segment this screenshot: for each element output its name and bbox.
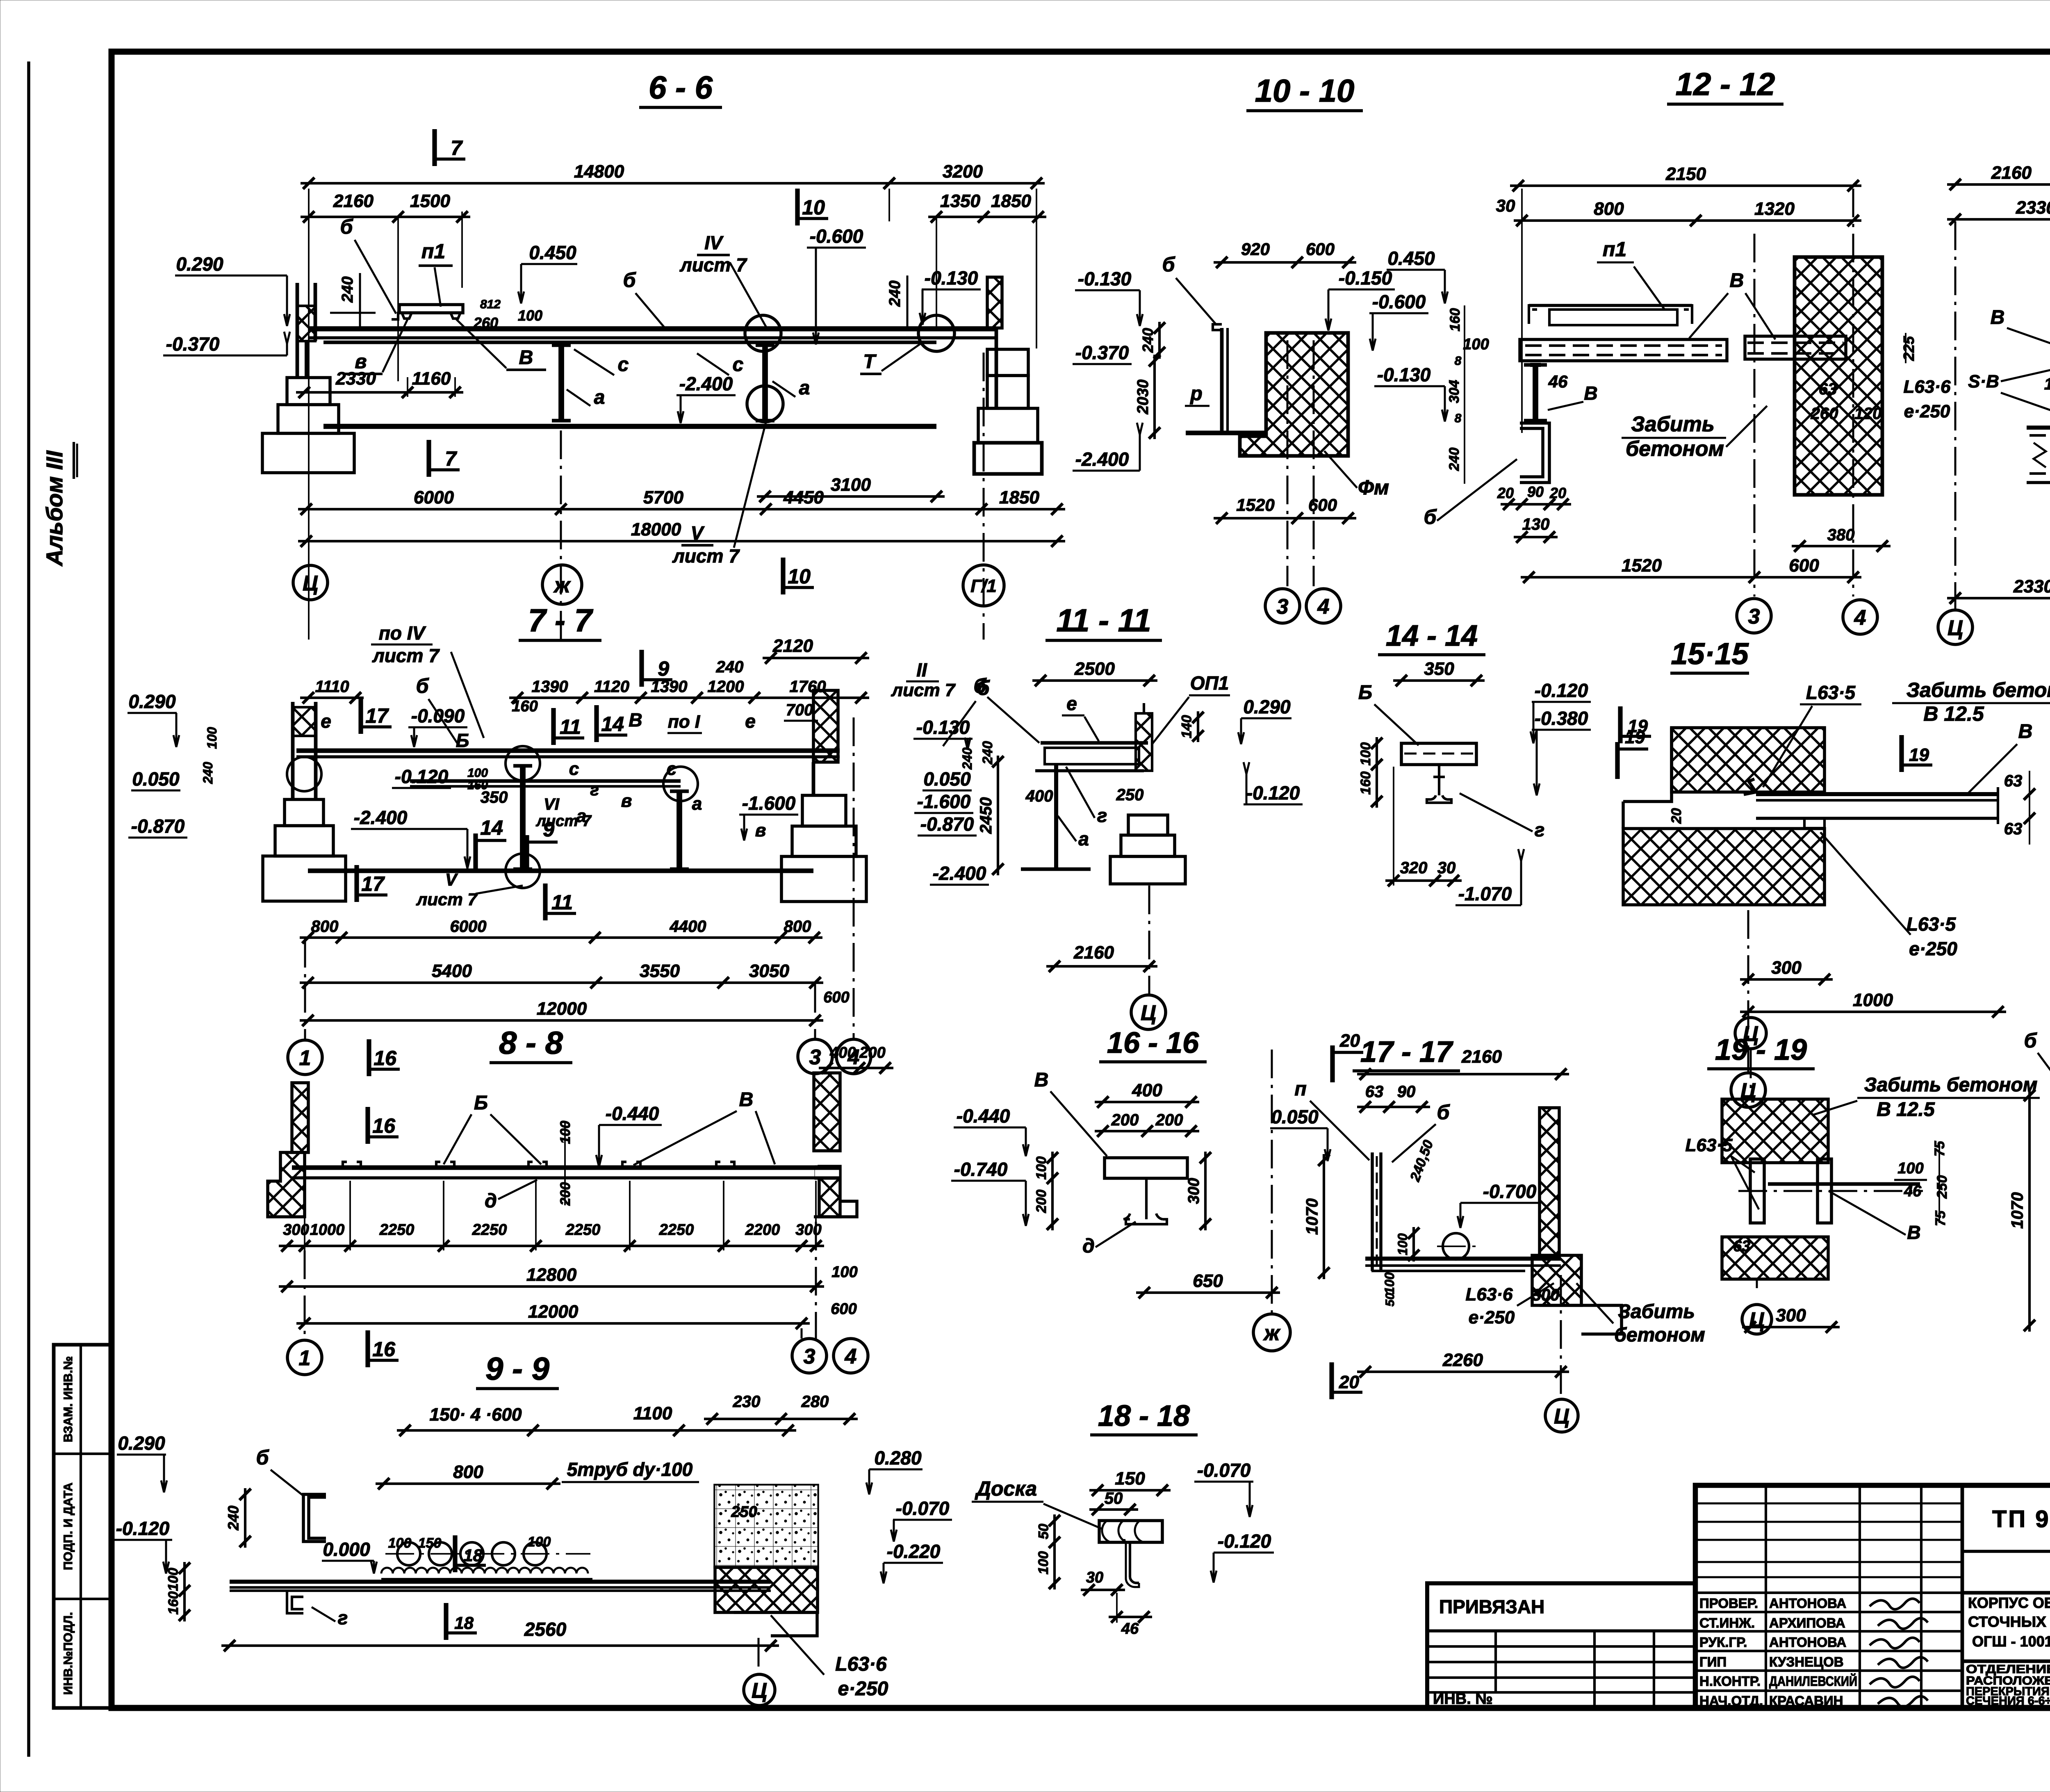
svg-text:СТ.ИНЖ.: СТ.ИНЖ. — [1699, 1615, 1755, 1630]
svg-text:11: 11 — [560, 715, 581, 738]
svg-text:7: 7 — [445, 447, 457, 470]
19-19 dim 300 — [1742, 1326, 1840, 1328]
7-7 flag 9 — [639, 650, 644, 687]
svg-text:-0.120: -0.120 — [395, 766, 449, 787]
svg-text:-0.220: -0.220 — [887, 1541, 941, 1562]
svg-text:L63·6: L63·6 — [835, 1653, 887, 1675]
6-6 column I-beams — [558, 345, 564, 421]
svg-text:1110: 1110 — [315, 678, 349, 696]
svg-text:-0.870: -0.870 — [131, 815, 185, 837]
svg-text:РУК.ГР.: РУК.ГР. — [1699, 1635, 1747, 1650]
svg-text:с: с — [569, 759, 579, 779]
svg-text:Б: Б — [456, 730, 469, 751]
svg-text:50: 50 — [1105, 1489, 1123, 1507]
svg-text:17: 17 — [365, 704, 389, 727]
8-8 dim row — [279, 1245, 824, 1247]
svg-text:L63·6: L63·6 — [1904, 377, 1951, 397]
svg-text:-0.120: -0.120 — [1535, 680, 1588, 701]
svg-text:В: В — [519, 347, 533, 369]
15-15 axis circle C — [1747, 910, 1749, 1072]
svg-text:400: 400 — [829, 1044, 856, 1061]
svg-text:11: 11 — [551, 891, 573, 914]
svg-text:46: 46 — [1548, 372, 1568, 391]
svg-text:812: 812 — [480, 298, 501, 311]
svg-text:20: 20 — [1339, 1372, 1359, 1392]
svg-text:Ц: Ц — [1554, 1405, 1569, 1428]
svg-text:0.290: 0.290 — [128, 691, 176, 712]
9-9 beam lines — [230, 1580, 771, 1584]
svg-text:б: б — [1437, 1101, 1451, 1124]
11-11 dim 140 vert — [1197, 711, 1199, 742]
svg-text:б: б — [2024, 1029, 2038, 1052]
17-17 dim 1070 vert — [1323, 1154, 1325, 1279]
9-9 pipe circles — [385, 1553, 590, 1555]
10-10 axis circle 3 — [1265, 589, 1300, 623]
18-18 dim 50 — [1089, 1508, 1138, 1511]
svg-text:-0.370: -0.370 — [166, 333, 220, 355]
svg-text:-2.400: -2.400 — [933, 863, 986, 884]
svg-text:3: 3 — [1748, 605, 1760, 628]
svg-text:3050: 3050 — [749, 961, 789, 981]
svg-text:650: 650 — [1193, 1271, 1223, 1291]
svg-text:4450: 4450 — [783, 487, 824, 508]
svg-text:63: 63 — [1365, 1083, 1384, 1101]
10-10 dim 920 600 — [1214, 261, 1356, 264]
svg-text:600: 600 — [823, 989, 849, 1006]
svg-text:10: 10 — [2044, 375, 2050, 393]
svg-text:100: 100 — [205, 727, 219, 749]
svg-text:В: В — [1730, 270, 1744, 291]
12-12 right beam segment — [1745, 336, 1846, 359]
15-15 beam — [1756, 792, 1998, 796]
svg-text:-0.370: -0.370 — [1075, 342, 1129, 363]
12-12 channel below — [1520, 423, 1549, 483]
15-15 flag 19 mid — [1899, 735, 1904, 772]
svg-text:15·15: 15·15 — [1671, 637, 1749, 671]
svg-text:300: 300 — [1185, 1178, 1203, 1204]
svg-text:1520: 1520 — [1622, 556, 1662, 576]
14-14 dim 350 — [1393, 679, 1485, 682]
svg-text:п: п — [1294, 1078, 1306, 1100]
svg-text:1070: 1070 — [1303, 1198, 1321, 1235]
svg-text:12000: 12000 — [528, 1302, 579, 1322]
16-16 dim 400 — [1095, 1101, 1199, 1103]
svg-text:-1.600: -1.600 — [917, 791, 971, 812]
17-17 base beam — [1365, 1257, 1561, 1261]
18-18 dim 30 — [1081, 1589, 1125, 1591]
svg-text:75: 75 — [1933, 1210, 1948, 1226]
8-8 dim 12800 — [279, 1285, 824, 1288]
9-9 right concrete block — [715, 1485, 818, 1567]
svg-text:19: 19 — [1625, 727, 1645, 747]
6-6 left wall — [296, 283, 299, 378]
svg-text:Б: Б — [1358, 682, 1372, 704]
14-14 rail below — [1427, 765, 1451, 803]
9-9 dim 150x4=600 1100 — [397, 1429, 796, 1432]
11-11 plate and beam — [1041, 741, 1148, 745]
svg-text:СЕЧЕНИЯ 6-6÷21-21. УЗЕЛ I: СЕЧЕНИЯ 6-6÷21-21. УЗЕЛ I — [1966, 1694, 2050, 1708]
svg-text:1390: 1390 — [532, 678, 568, 696]
svg-text:е: е — [321, 710, 331, 732]
svg-text:2160: 2160 — [1073, 943, 1114, 963]
7-7 flag 17 bottom — [354, 865, 359, 902]
svg-text:Забить бетоном: Забить бетоном — [1906, 679, 2050, 701]
svg-text:2030: 2030 — [1134, 380, 1152, 415]
svg-text:300: 300 — [795, 1221, 821, 1239]
17-17 flag 20 top — [1330, 1045, 1335, 1082]
7-7 flag 17 top — [358, 697, 363, 734]
svg-text:320: 320 — [1400, 859, 1428, 877]
svg-text:б: б — [256, 1446, 270, 1469]
14-14 flag 19 — [1618, 706, 1622, 743]
svg-text:920: 920 — [1241, 239, 1270, 259]
svg-text:Т: Т — [863, 351, 877, 373]
svg-text:L63·5: L63·5 — [1686, 1135, 1733, 1155]
7-7 axes and circles — [304, 939, 306, 1039]
svg-text:Забить бетоном: Забить бетоном — [1864, 1074, 2038, 1096]
svg-text:Альбом III: Альбом III — [41, 450, 67, 567]
10-10 dim 2030 vert — [1153, 355, 1156, 439]
svg-text:0.290: 0.290 — [118, 1432, 165, 1454]
signatures squiggles — [1870, 1598, 1920, 1609]
svg-text:п1: п1 — [421, 240, 445, 263]
svg-text:90: 90 — [1527, 483, 1544, 500]
title table thin rows — [1695, 1503, 1962, 1505]
svg-text:по IV: по IV — [379, 622, 426, 644]
11-11 base line — [1021, 868, 1091, 871]
12-12 dims 30 800 1320 — [1514, 219, 1861, 222]
svg-text:18: 18 — [454, 1613, 474, 1633]
6-6 main beam — [309, 326, 996, 332]
6-6 cut flag 10 bottom — [781, 558, 785, 594]
svg-text:1350: 1350 — [940, 191, 980, 211]
15-15 dim 1000 — [1740, 1011, 2006, 1013]
10-10 base line — [1186, 430, 1264, 435]
svg-text:600: 600 — [831, 1300, 856, 1318]
18-18 vert dims 50 100 — [1053, 1514, 1056, 1589]
svg-text:800: 800 — [453, 1462, 483, 1482]
7-7 axis circle 4 — [836, 1039, 871, 1074]
svg-text:лист 7: лист 7 — [372, 645, 440, 666]
6-6 dim 2330 1160 — [296, 391, 463, 394]
svg-text:1100: 1100 — [633, 1403, 672, 1423]
svg-text:-2.400: -2.400 — [1075, 449, 1129, 470]
19-19 beam line — [1768, 1182, 1920, 1186]
svg-text:-0.600: -0.600 — [1372, 291, 1426, 312]
svg-text:Ц: Ц — [1743, 1022, 1758, 1046]
18-18 channel below — [1124, 1539, 1139, 1583]
svg-text:2160: 2160 — [1461, 1047, 1502, 1067]
svg-text:100: 100 — [1036, 1551, 1051, 1575]
svg-text:18000: 18000 — [631, 519, 681, 540]
svg-text:14800: 14800 — [574, 162, 624, 182]
svg-text:240: 240 — [886, 280, 904, 307]
svg-text:АРХИПОВА: АРХИПОВА — [1769, 1615, 1845, 1630]
svg-text:Фм: Фм — [1358, 476, 1389, 499]
14-14 dims 320 30 — [1385, 879, 1462, 882]
svg-text:1070: 1070 — [2009, 1192, 2027, 1229]
privyazan table — [1427, 1583, 1695, 1708]
svg-text:8 - 8: 8 - 8 — [499, 1025, 563, 1061]
svg-text:6 - 6: 6 - 6 — [649, 69, 713, 105]
6-6 right foundation — [987, 349, 1028, 376]
svg-text:СТОЧНЫХ ВОД С 5ЦЕНТРИФУГАМИ: СТОЧНЫХ ВОД С 5ЦЕНТРИФУГАМИ — [1968, 1613, 2050, 1630]
8-8 dims 400 200 top — [819, 1067, 893, 1069]
9-9 dims 230 280 — [704, 1418, 858, 1420]
svg-text:-1.600: -1.600 — [742, 792, 796, 814]
svg-text:п1: п1 — [1603, 238, 1626, 261]
svg-text:90: 90 — [1397, 1083, 1416, 1101]
svg-text:230: 230 — [733, 1393, 761, 1411]
svg-text:ГИП: ГИП — [1699, 1654, 1727, 1669]
9-9 dims 160 100 vert — [183, 1562, 186, 1621]
svg-text:10: 10 — [802, 196, 825, 219]
svg-text:300: 300 — [1771, 958, 1802, 978]
svg-text:НАЧ.ОТД.: НАЧ.ОТД. — [1699, 1693, 1763, 1708]
svg-text:1000: 1000 — [310, 1221, 345, 1239]
16-16 vert dims 100 200 300 — [1051, 1152, 1054, 1230]
7-7 axis circle 1 — [288, 1040, 322, 1075]
8-8 beam — [292, 1165, 827, 1170]
12-12 dim 2150 — [1510, 184, 1861, 187]
svg-text:Забить: Забить — [1631, 412, 1714, 436]
svg-text:2500: 2500 — [1074, 659, 1115, 679]
8-8 flag 16 top — [365, 1107, 370, 1144]
svg-text:б: б — [340, 215, 354, 238]
svg-text:240: 240 — [225, 1505, 242, 1530]
14-14 vert dims 100 160 — [1376, 737, 1378, 808]
svg-text:50: 50 — [1036, 1524, 1052, 1539]
svg-text:ПРИВЯЗАН: ПРИВЯЗАН — [1439, 1596, 1544, 1617]
svg-text:-1.070: -1.070 — [1458, 883, 1512, 904]
7-7 bottom dims 800 6000 4400 800 — [300, 936, 822, 939]
7-7 axis circle 3 — [798, 1039, 832, 1074]
svg-text:46: 46 — [1121, 1620, 1139, 1637]
7-7 flag 16 bottom — [367, 1039, 371, 1076]
6-6 plate p1 on beam — [399, 305, 463, 313]
svg-text:В: В — [629, 709, 642, 731]
svg-text:12800: 12800 — [526, 1265, 577, 1285]
svg-text:-0.700: -0.700 — [1483, 1181, 1537, 1202]
svg-text:350: 350 — [1424, 659, 1454, 679]
svg-text:800: 800 — [784, 918, 811, 936]
17-17 dim 100 vert — [1412, 1227, 1415, 1261]
svg-text:б: б — [623, 269, 637, 291]
svg-text:ж: ж — [1263, 1321, 1281, 1345]
svg-text:0.290: 0.290 — [176, 253, 223, 275]
svg-text:0.000: 0.000 — [323, 1539, 370, 1560]
svg-text:300: 300 — [283, 1221, 309, 1239]
svg-text:-0.870: -0.870 — [920, 813, 974, 835]
14-14 beam plate — [1401, 743, 1476, 765]
svg-text:9: 9 — [543, 818, 554, 841]
svg-text:16 - 16: 16 - 16 — [1107, 1027, 1199, 1059]
6-6 axis circle Zh — [542, 565, 582, 604]
svg-text:ОГШ - 1001К- 01: ОГШ - 1001К- 01 — [1972, 1633, 2050, 1650]
svg-text:Ц: Ц — [752, 1679, 767, 1703]
svg-text:-0.130: -0.130 — [925, 267, 978, 289]
svg-text:2450: 2450 — [977, 797, 995, 834]
svg-text:11 - 11: 11 - 11 — [1056, 602, 1151, 638]
svg-text:10: 10 — [788, 565, 811, 588]
9-9 weld strip — [381, 1568, 588, 1573]
svg-text:В: В — [2018, 721, 2033, 742]
svg-text:-2.400: -2.400 — [679, 373, 733, 394]
19-19 axis circle C bottom — [1756, 1279, 1758, 1288]
svg-text:260: 260 — [1811, 405, 1838, 423]
svg-text:S·В: S·В — [1968, 371, 1999, 392]
svg-text:2330: 2330 — [2016, 198, 2050, 218]
svg-text:e·250: e·250 — [838, 1678, 888, 1700]
svg-text:2160: 2160 — [1991, 163, 2032, 183]
svg-text:240: 240 — [339, 276, 356, 303]
svg-text:17: 17 — [361, 872, 385, 895]
svg-text:1320: 1320 — [1754, 199, 1795, 219]
svg-text:1850: 1850 — [991, 191, 1031, 211]
svg-text:-0.440: -0.440 — [957, 1105, 1010, 1127]
svg-text:а: а — [1078, 828, 1089, 849]
17-17 flag 20 bottom — [1329, 1362, 1334, 1399]
19-19 axis circle C top — [1735, 1018, 1766, 1049]
7-7 right foundation — [802, 795, 846, 826]
svg-text:г: г — [1097, 805, 1107, 826]
svg-text:19 - 19: 19 - 19 — [1715, 1034, 1807, 1066]
svg-text:4: 4 — [1854, 606, 1866, 630]
8-8 c clips — [343, 1162, 361, 1168]
svg-text:130: 130 — [1522, 515, 1550, 533]
TP row lines — [1962, 1550, 2050, 1553]
svg-text:140: 140 — [1179, 715, 1195, 738]
svg-text:1500: 1500 — [410, 191, 450, 211]
svg-text:20: 20 — [1339, 1031, 1360, 1051]
6-6 axes — [560, 430, 562, 640]
13-13 dims 2330 1160 — [1947, 218, 2050, 221]
13-13 bottom beam — [2027, 426, 2050, 430]
svg-text:г: г — [1535, 819, 1545, 840]
svg-text:600: 600 — [1789, 556, 1819, 576]
9-9 flag 18 bottom — [444, 1603, 448, 1640]
svg-text:1390: 1390 — [651, 678, 688, 696]
svg-text:VI: VI — [544, 795, 560, 813]
svg-text:100: 100 — [831, 1264, 857, 1281]
12-12 plate assembly — [1529, 305, 1537, 324]
svg-text:e·250: e·250 — [1904, 401, 1950, 421]
11-11 dim 2500 — [1032, 679, 1157, 682]
svg-text:240: 240 — [200, 762, 215, 784]
title table labeled rows — [1695, 1592, 1962, 1594]
7-7 flag 14 9 bottom — [473, 833, 478, 870]
svg-text:3: 3 — [804, 1345, 815, 1368]
svg-text:лист 7: лист 7 — [416, 890, 478, 909]
svg-text:В: В — [1584, 383, 1597, 404]
8-8 axis circle 3 — [792, 1339, 827, 1373]
svg-text:В 12.5: В 12.5 — [1923, 702, 1984, 725]
svg-text:ОП1: ОП1 — [1190, 672, 1229, 694]
svg-text:160: 160 — [1447, 308, 1463, 332]
svg-text:д: д — [1082, 1235, 1095, 1257]
svg-text:300: 300 — [1532, 1286, 1560, 1304]
7-7 dim 2120 — [763, 657, 869, 659]
svg-text:В: В — [1991, 307, 2005, 328]
svg-text:с: с — [667, 759, 676, 779]
svg-text:Н.КОНТР.: Н.КОНТР. — [1699, 1674, 1761, 1689]
svg-text:1850: 1850 — [999, 487, 1039, 508]
svg-text:160: 160 — [1358, 772, 1373, 795]
svg-text:В: В — [739, 1089, 754, 1111]
12-12 axes — [1754, 234, 1756, 597]
svg-text:2330: 2330 — [335, 369, 376, 389]
svg-text:20: 20 — [1497, 485, 1514, 501]
svg-text:д: д — [485, 1190, 497, 1212]
svg-text:ИНВ.№ПОДЛ.: ИНВ.№ПОДЛ. — [61, 1612, 75, 1695]
svg-text:350: 350 — [481, 788, 508, 806]
13-13 axis circle C — [1954, 221, 1957, 609]
7-7 sub beam line — [410, 779, 681, 783]
6-6 dim 3100 — [757, 495, 945, 498]
10-10 dim 1520 600 — [1214, 517, 1356, 519]
svg-text:20: 20 — [1669, 808, 1684, 824]
svg-text:0.050: 0.050 — [132, 768, 180, 790]
9-9 dim 240 vert — [244, 1488, 246, 1548]
11-11 dim 2160 — [1046, 965, 1157, 968]
svg-text:63: 63 — [1733, 1238, 1750, 1255]
15-15 angle under beam — [1804, 818, 1824, 828]
svg-text:200: 200 — [859, 1044, 885, 1061]
svg-text:-0.120: -0.120 — [1218, 1530, 1271, 1552]
svg-text:-0.130: -0.130 — [1078, 268, 1132, 289]
svg-text:150: 150 — [1115, 1469, 1145, 1489]
13-13 dim 2330 bottom — [1947, 597, 2050, 599]
11-11 foundation steps — [1128, 815, 1168, 835]
17-17 upright plate — [1371, 1152, 1374, 1271]
17-17 pipe circle — [1443, 1233, 1469, 1259]
svg-text:400: 400 — [1025, 787, 1053, 805]
12-12 dim 380 — [1792, 545, 1891, 547]
svg-text:0.290: 0.290 — [1243, 696, 1291, 717]
6-6 junction circles — [745, 315, 781, 351]
8-8 beam through wall whiteout — [815, 1166, 839, 1179]
18-18 dim 150 — [1089, 1489, 1171, 1491]
svg-text:17 - 17: 17 - 17 — [1360, 1036, 1453, 1068]
svg-text:16: 16 — [374, 1047, 397, 1070]
svg-text:600: 600 — [1308, 495, 1337, 515]
10-10 axes circles — [1287, 340, 1289, 586]
svg-text:ТП 902-5-47.87: ТП 902-5-47.87 — [1992, 1506, 2050, 1532]
svg-text:100: 100 — [467, 766, 488, 780]
svg-text:е: е — [745, 710, 756, 732]
svg-text:10 - 10: 10 - 10 — [1255, 73, 1355, 109]
12-12 axis circle 3 — [1737, 599, 1771, 633]
18-18 board — [1099, 1521, 1162, 1542]
10-10 wall lines — [1220, 328, 1224, 433]
svg-text:240: 240 — [1139, 328, 1156, 353]
6-6 axis circle G1 — [963, 565, 1004, 606]
svg-text:-0.380: -0.380 — [1535, 708, 1588, 729]
9-9 channel b section — [303, 1494, 326, 1542]
svg-text:18 - 18: 18 - 18 — [1098, 1400, 1190, 1432]
7-7 middle columns — [520, 766, 526, 869]
svg-text:с: с — [618, 354, 629, 376]
17-17 dim 2260 — [1357, 1371, 1569, 1373]
svg-text:250: 250 — [1934, 1175, 1950, 1199]
19-19 stiffener plates — [1750, 1159, 1764, 1223]
svg-text:бетоном: бетоном — [1626, 437, 1724, 461]
7-7 main beam — [296, 748, 840, 753]
svg-text:225: 225 — [1900, 336, 1917, 361]
16-16 plate — [1105, 1158, 1187, 1178]
svg-text:100: 100 — [166, 1568, 181, 1591]
svg-text:7: 7 — [451, 137, 463, 159]
